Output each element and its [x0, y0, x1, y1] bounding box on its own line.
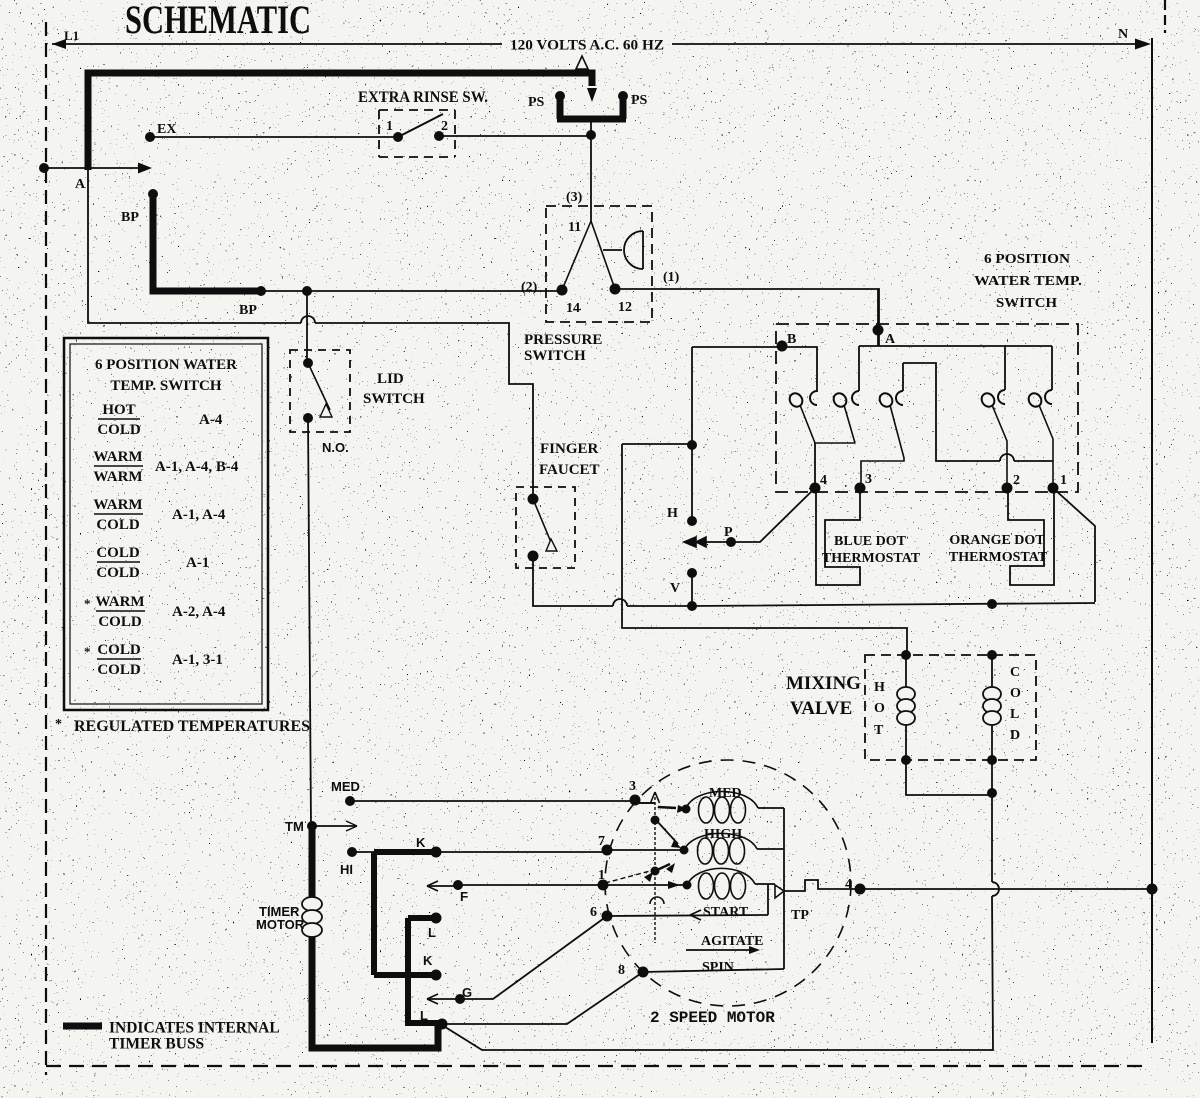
svg-text:1: 1 — [598, 868, 605, 883]
svg-text:LID: LID — [377, 371, 404, 387]
svg-text:PS: PS — [631, 93, 648, 108]
svg-text:*: * — [55, 717, 62, 732]
svg-text:H: H — [874, 680, 885, 695]
svg-text:A-1, A-4: A-1, A-4 — [172, 507, 226, 523]
svg-text:MIXING: MIXING — [786, 673, 861, 694]
svg-text:TM: TM — [285, 819, 304, 834]
svg-text:6 POSITION: 6 POSITION — [984, 252, 1070, 267]
svg-text:SWITCH: SWITCH — [363, 391, 425, 407]
svg-text:WARM: WARM — [93, 497, 142, 513]
svg-text:L: L — [1010, 707, 1019, 722]
svg-text:N: N — [1118, 27, 1128, 42]
svg-text:ORANGE DOT: ORANGE DOT — [949, 533, 1045, 548]
svg-text:EX: EX — [157, 122, 176, 137]
svg-text:WARM: WARM — [93, 449, 142, 465]
svg-text:(1): (1) — [663, 270, 680, 285]
svg-text:K: K — [416, 835, 426, 850]
svg-text:A-1, A-4, B-4: A-1, A-4, B-4 — [155, 459, 239, 475]
svg-text:(2): (2) — [521, 280, 538, 295]
svg-text:7: 7 — [598, 834, 605, 849]
svg-text:START: START — [703, 905, 749, 920]
svg-text:4: 4 — [820, 473, 827, 488]
svg-text:A: A — [885, 332, 896, 347]
svg-text:BLUE DOT: BLUE DOT — [834, 534, 907, 549]
svg-text:COLD: COLD — [96, 545, 140, 561]
svg-text:HIGH: HIGH — [704, 827, 742, 842]
svg-text:8: 8 — [618, 963, 625, 978]
svg-text:H: H — [667, 506, 678, 521]
svg-text:THERMOSTAT: THERMOSTAT — [822, 551, 921, 566]
svg-text:COLD: COLD — [96, 565, 140, 581]
svg-text:1: 1 — [1060, 473, 1067, 488]
svg-text:L1: L1 — [64, 28, 79, 43]
svg-text:BP: BP — [239, 303, 257, 318]
svg-text:VALVE: VALVE — [790, 698, 852, 719]
svg-text:COLD: COLD — [97, 662, 141, 678]
svg-text:2: 2 — [1013, 473, 1020, 488]
svg-text:V: V — [670, 581, 680, 596]
svg-text:HI: HI — [340, 862, 353, 877]
svg-text:PRESSURE: PRESSURE — [524, 332, 602, 348]
svg-text:6: 6 — [590, 905, 597, 920]
svg-text:COLD: COLD — [98, 614, 142, 630]
svg-text:COLD: COLD — [97, 422, 141, 438]
svg-text:11: 11 — [568, 220, 581, 235]
svg-text:L: L — [428, 925, 436, 940]
svg-text:FINGER: FINGER — [540, 441, 599, 457]
svg-text:P: P — [724, 525, 733, 540]
svg-text:BP: BP — [121, 210, 139, 225]
svg-text:HOT: HOT — [102, 402, 135, 418]
svg-text:120 VOLTS A.C. 60 HZ: 120 VOLTS A.C. 60 HZ — [510, 38, 664, 54]
svg-text:SWITCH: SWITCH — [996, 296, 1057, 311]
svg-text:3: 3 — [865, 472, 872, 487]
svg-text:TEMP. SWITCH: TEMP. SWITCH — [110, 378, 221, 394]
svg-text:SCHEMATIC: SCHEMATIC — [125, 0, 311, 42]
svg-text:*: * — [84, 644, 91, 659]
svg-text:A: A — [75, 177, 86, 192]
svg-text:2 SPEED MOTOR: 2 SPEED MOTOR — [650, 1009, 775, 1027]
svg-text:COLD: COLD — [97, 642, 141, 658]
svg-text:6 POSITION WATER: 6 POSITION WATER — [95, 357, 237, 373]
svg-text:A-2, A-4: A-2, A-4 — [172, 604, 226, 620]
svg-text:WARM: WARM — [93, 469, 142, 485]
svg-text:WATER TEMP.: WATER TEMP. — [974, 274, 1082, 289]
svg-text:MED: MED — [331, 779, 360, 794]
svg-text:3: 3 — [629, 779, 636, 794]
svg-text:12: 12 — [618, 300, 632, 315]
svg-text:K: K — [423, 953, 433, 968]
svg-text:COLD: COLD — [96, 517, 140, 533]
svg-text:2: 2 — [441, 119, 448, 134]
svg-text:TIMER BUSS: TIMER BUSS — [109, 1036, 204, 1053]
svg-text:THERMOSTAT: THERMOSTAT — [949, 550, 1048, 565]
svg-text:14: 14 — [566, 301, 580, 316]
svg-text:O: O — [1010, 686, 1021, 701]
svg-text:PS: PS — [528, 95, 545, 110]
svg-text:4: 4 — [845, 877, 852, 892]
svg-text:TP: TP — [791, 908, 809, 923]
svg-text:T: T — [874, 723, 884, 738]
svg-text:INDICATES INTERNAL: INDICATES INTERNAL — [109, 1020, 280, 1037]
svg-text:SPIN: SPIN — [702, 960, 734, 975]
svg-text:(3): (3) — [566, 190, 583, 205]
svg-text:B: B — [787, 332, 796, 347]
svg-text:WARM: WARM — [95, 594, 144, 610]
svg-text:1: 1 — [386, 119, 393, 134]
svg-text:A-1: A-1 — [186, 555, 209, 571]
svg-text:FAUCET: FAUCET — [539, 462, 600, 478]
svg-text:A-1, 3-1: A-1, 3-1 — [172, 652, 223, 668]
svg-text:A-4: A-4 — [199, 412, 223, 428]
svg-text:REGULATED TEMPERATURES: REGULATED TEMPERATURES — [74, 718, 310, 735]
svg-text:F: F — [460, 889, 468, 904]
svg-text:L: L — [420, 1008, 428, 1023]
svg-text:D: D — [1010, 728, 1020, 743]
svg-text:G: G — [462, 985, 472, 1000]
svg-text:*: * — [84, 596, 91, 611]
svg-text:MED: MED — [709, 786, 742, 801]
svg-text:AGITATE: AGITATE — [701, 934, 764, 949]
svg-text:N.O.: N.O. — [322, 440, 349, 455]
svg-text:C: C — [1010, 665, 1020, 680]
svg-text:O: O — [874, 701, 885, 716]
svg-text:EXTRA RINSE SW.: EXTRA RINSE SW. — [358, 89, 488, 106]
svg-text:SWITCH: SWITCH — [524, 348, 586, 364]
svg-text:MOTOR: MOTOR — [256, 917, 305, 932]
